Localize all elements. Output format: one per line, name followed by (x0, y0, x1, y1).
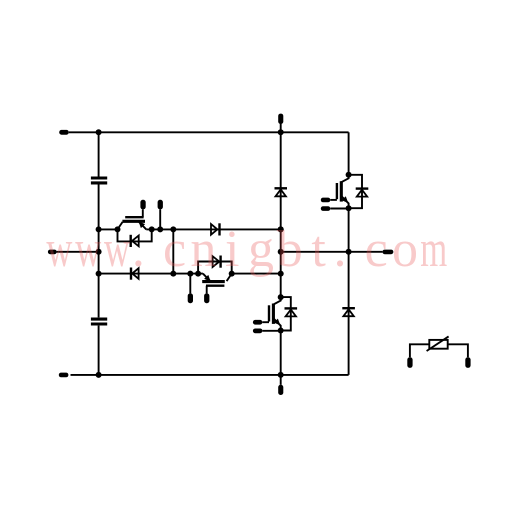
IGBT Q4 (lower right) (262, 297, 280, 331)
node left bus row B (96, 271, 102, 277)
wire right branch upper (348, 132, 350, 175)
svg-text:i: i (225, 221, 239, 278)
capacitor C2 (91, 319, 107, 324)
node Q2 aux (187, 271, 193, 277)
node Q2 emitter (195, 271, 201, 277)
svg-text:c: c (163, 221, 186, 278)
terminal mid-left (48, 250, 57, 255)
node Q3 emitter (346, 205, 352, 211)
wire link row A to row B (172, 229, 174, 273)
node bottom-center junction (278, 372, 284, 378)
wire thermistor right lead (448, 344, 468, 357)
terminal output right (382, 250, 393, 255)
node Q1 collector (115, 226, 121, 232)
node Q2 collector (229, 271, 235, 277)
wire diode loop D8 (281, 297, 291, 330)
svg-text:w: w (104, 221, 130, 278)
wire bottom rail (71, 374, 349, 376)
capacitor C1 (91, 178, 107, 183)
svg-text:.: . (334, 221, 347, 278)
node top-center junction (278, 129, 284, 135)
pin G3 gate (321, 198, 331, 203)
svg-text:g: g (248, 221, 274, 278)
IGBT Q3 (upper right) (330, 175, 348, 209)
pin E2 aux emitter (188, 293, 193, 303)
wire aux emitter lead Q1 (159, 209, 161, 229)
node top-left junction (96, 129, 102, 135)
wire right branch lower (348, 208, 350, 375)
svg-text:m: m (420, 221, 447, 278)
pin G1 gate (140, 200, 145, 210)
diode D4 row B (131, 268, 139, 280)
pin E4 aux emitter (253, 329, 263, 334)
wire left bus upper (98, 132, 100, 176)
wire center bus lower (280, 331, 282, 385)
node center row B (278, 271, 284, 277)
node left bus row A (96, 226, 102, 232)
wire mid-left terminal lead (57, 251, 99, 253)
wire diode loop D1 (118, 229, 152, 241)
node Q1 emitter (149, 226, 155, 232)
node link top (170, 226, 176, 232)
terminal top-center (278, 114, 283, 124)
wire diode loop D2 (198, 262, 232, 274)
wire diode loop D7 (349, 175, 362, 208)
wire row B left segment (99, 273, 203, 275)
wire left bus lower (98, 326, 100, 375)
diode D3 row A (211, 223, 220, 235)
pin G4 gate (253, 320, 263, 325)
IGBT Q2 (rotated, gate down) (202, 274, 232, 294)
diode D8 (antiparallel Q4) (285, 308, 298, 316)
svg-text:b: b (277, 221, 303, 278)
svg-text:t: t (311, 221, 326, 278)
wire row A right segment (146, 228, 280, 230)
node bottom-left junction (96, 372, 102, 378)
terminal N bottom-left (59, 373, 69, 378)
diode D7 (antiparallel Q3) (356, 189, 369, 197)
watermark www.cnigbt.com (46, 221, 447, 278)
svg-text:c: c (365, 221, 388, 278)
svg-text:w: w (46, 221, 72, 278)
wire row A left segment (99, 228, 118, 230)
svg-text:o: o (392, 221, 418, 278)
pin thermistor left (407, 357, 412, 368)
node left bus mid (96, 249, 102, 255)
node link bottom (170, 271, 176, 277)
svg-text:w: w (75, 221, 101, 278)
svg-text:n: n (190, 221, 216, 278)
node center row A (278, 226, 284, 232)
thermistor RT1 (427, 336, 449, 351)
wire row B right segment (232, 273, 281, 275)
terminal P top-left (59, 130, 69, 135)
node Q4 collector (278, 294, 284, 300)
diode D5 center bus (275, 188, 288, 196)
pin thermistor right (465, 357, 470, 368)
node Q3 collector (346, 172, 352, 178)
wire top rail (69, 131, 349, 133)
node output right branch (346, 249, 352, 255)
wire left bus middle (98, 185, 100, 318)
pin E3 aux emitter (321, 206, 331, 211)
diode D6 right branch (342, 308, 355, 316)
wire center bus upper (280, 124, 282, 298)
wire thermistor left lead (410, 344, 429, 357)
diode D2 (antiparallel Q2) (213, 256, 221, 268)
node Q1 aux (157, 226, 163, 232)
IGBT Q1 (rotated, gate up) (118, 209, 147, 229)
terminal bottom-center (278, 385, 283, 395)
node center mid (278, 249, 284, 255)
node Q4 emitter (278, 328, 284, 334)
wire aux emitter lead Q2 (189, 274, 191, 294)
diode D1 (antiparallel Q1) (131, 235, 139, 247)
wire output row (281, 251, 383, 253)
svg-text:.: . (132, 221, 145, 278)
node row A right (278, 226, 284, 232)
pin G2 gate (204, 293, 209, 303)
pin E1 aux emitter (158, 200, 163, 210)
